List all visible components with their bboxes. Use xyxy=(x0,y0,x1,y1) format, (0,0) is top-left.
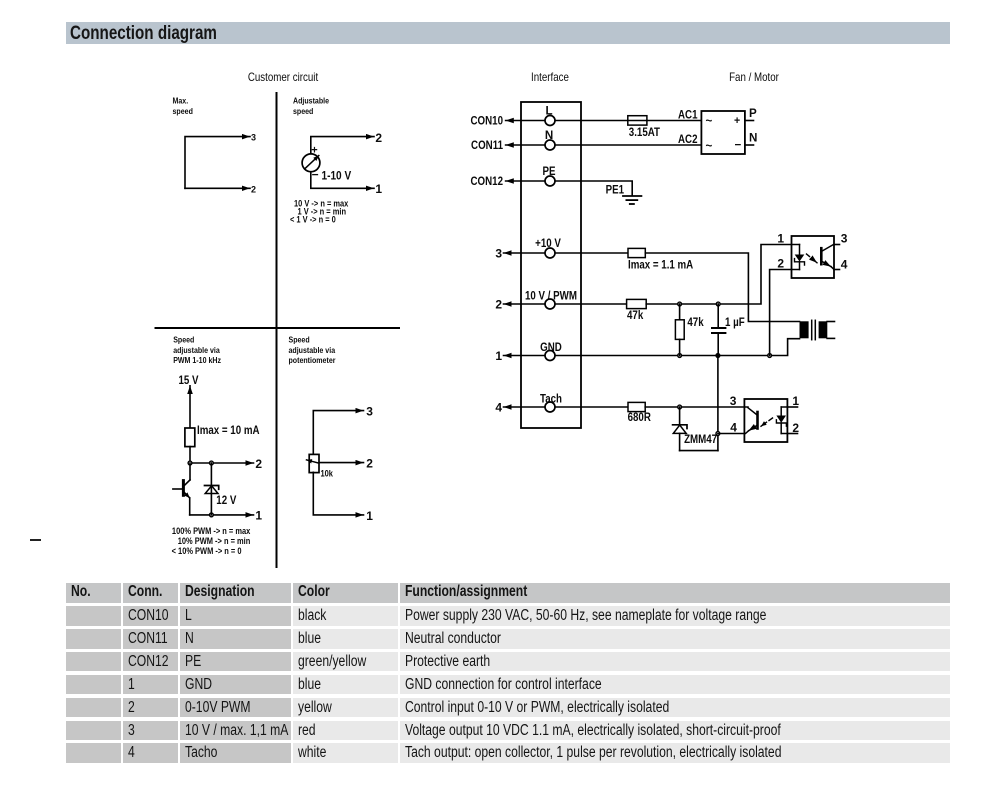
left margin dash xyxy=(30,539,41,541)
resistor R 47k vertical xyxy=(675,304,684,356)
wire U2 pin1 stub xyxy=(787,406,797,408)
ground symbol xyxy=(623,196,641,204)
rectifier block fan box xyxy=(701,111,745,154)
svg-text:47k: 47k xyxy=(687,316,703,329)
wire U2 pin2 stub xyxy=(787,433,797,435)
wire max-speed to 3 xyxy=(185,137,250,189)
svg-text:P: P xyxy=(749,107,757,120)
svg-text:10% PWM -> n = min: 10% PWM -> n = min xyxy=(178,537,251,547)
zener diode ZMM47 xyxy=(673,407,687,451)
svg-text:1: 1 xyxy=(375,182,382,196)
svg-text:2: 2 xyxy=(366,457,373,471)
svg-text:~: ~ xyxy=(706,115,713,128)
wire U1 pin2 to GND xyxy=(770,270,792,356)
wire PWM to resistor xyxy=(555,303,626,305)
wire adj-speed to 1 xyxy=(311,172,374,189)
wire GND drop to rail xyxy=(717,356,719,451)
divider wire vertical xyxy=(276,93,278,567)
potentiometer R 10k xyxy=(307,454,320,472)
svg-text:−: − xyxy=(312,168,319,182)
wire resistor to node xyxy=(189,447,191,463)
svg-text:1-10 V: 1-10 V xyxy=(322,170,352,183)
svg-text:1: 1 xyxy=(777,231,784,245)
wire Tach to resistor xyxy=(555,406,628,408)
svg-text:1: 1 xyxy=(255,509,262,523)
label Speed adjustable via PWM 1-10 kHz xyxy=(173,335,221,365)
junction xyxy=(768,354,772,358)
svg-text:3: 3 xyxy=(730,394,737,408)
junction xyxy=(678,405,682,409)
svg-text:Imax = 1.1 mA: Imax = 1.1 mA xyxy=(628,259,693,272)
svg-text:Customer circuit: Customer circuit xyxy=(248,71,318,84)
svg-text:1 µF: 1 µF xyxy=(725,316,745,329)
wire zener bottom rail xyxy=(680,450,718,452)
svg-text:1: 1 xyxy=(366,509,373,523)
wire pot top to 3 xyxy=(313,411,363,455)
wire +10V to resistor xyxy=(555,252,628,254)
wire GND rail xyxy=(555,339,799,356)
wire PE to ground xyxy=(555,181,632,195)
svg-text:CON12: CON12 xyxy=(471,175,504,188)
svg-text:ZMM47: ZMM47 xyxy=(684,433,717,446)
wire 680R to U2 pin3 xyxy=(645,406,744,408)
svg-text:Adjustable: Adjustable xyxy=(293,96,330,106)
interface box xyxy=(521,102,581,428)
svg-text:CON10: CON10 xyxy=(471,115,504,128)
wire CON12 arrow xyxy=(506,180,545,182)
wire terminal-1 arrow xyxy=(504,355,545,357)
svg-text:CON11: CON11 xyxy=(471,139,503,152)
junction node xyxy=(210,461,214,465)
svg-text:2: 2 xyxy=(777,256,784,270)
svg-text:Speed: Speed xyxy=(173,335,194,345)
wire P stub xyxy=(745,120,754,122)
svg-text:potentiometer: potentiometer xyxy=(289,356,336,366)
svg-text:speed: speed xyxy=(173,106,194,116)
junction xyxy=(715,353,720,358)
junction xyxy=(678,302,682,306)
svg-text:10k: 10k xyxy=(320,469,333,479)
wire 15V arrow up xyxy=(189,386,191,428)
zener diode D1 12 V xyxy=(205,463,219,515)
wire terminal-3 arrow xyxy=(504,252,545,254)
svg-text:Fan / Motor: Fan / Motor xyxy=(729,71,779,84)
wire max-speed to 2 xyxy=(185,187,250,189)
svg-text:2: 2 xyxy=(375,131,382,145)
svg-text:< 10% PWM -> n = 0: < 10% PWM -> n = 0 xyxy=(172,547,242,557)
junction xyxy=(716,302,720,306)
svg-text:4: 4 xyxy=(730,421,737,435)
capacitor C1 1 uF xyxy=(712,304,725,356)
junction node xyxy=(188,461,192,465)
svg-text:Imax = 10 mA: Imax = 10 mA xyxy=(197,424,260,437)
svg-text:3: 3 xyxy=(251,133,256,143)
transistor Q1 xyxy=(173,463,190,515)
svg-text:47k: 47k xyxy=(627,309,643,322)
divider wire horizontal xyxy=(156,327,400,329)
wire N stub xyxy=(745,144,754,146)
svg-text:680R: 680R xyxy=(628,411,652,424)
svg-text:PE1: PE1 xyxy=(606,184,624,197)
wire CON11 arrow xyxy=(506,144,545,146)
svg-text:~: ~ xyxy=(706,140,713,153)
wire pot bottom to 1 xyxy=(313,472,363,515)
svg-text:adjustable via: adjustable via xyxy=(289,345,336,355)
title bar xyxy=(66,22,950,44)
wire 47k to U1 pin1 xyxy=(646,245,791,305)
wire adj-speed to 2 xyxy=(311,137,374,154)
voltage source V1 1-10 V xyxy=(302,144,320,181)
resistor R Imax = 1.1 mA xyxy=(628,248,645,257)
optocoupler U1 xyxy=(792,236,835,278)
resistor R Imax = 10 mA xyxy=(185,428,195,447)
wire terminal-4 arrow xyxy=(504,406,545,408)
svg-text:2: 2 xyxy=(792,421,799,435)
svg-text:4: 4 xyxy=(841,257,848,271)
svg-text:3: 3 xyxy=(366,404,373,418)
resistor R 47k xyxy=(627,299,647,308)
fuse F1 3.15AT xyxy=(628,116,647,125)
svg-text:4: 4 xyxy=(495,400,502,414)
svg-text:+: + xyxy=(734,115,740,127)
svg-text:Interface: Interface xyxy=(531,71,569,84)
svg-text:100% PWM -> n = max: 100% PWM -> n = max xyxy=(172,527,251,537)
resistor R 680R xyxy=(628,402,645,411)
label Speed adjustable via potentiometer xyxy=(289,335,336,365)
optocoupler U2 xyxy=(744,399,787,442)
svg-text:12 V: 12 V xyxy=(216,494,237,507)
svg-text:Speed: Speed xyxy=(289,335,310,345)
wire N to AC2 xyxy=(555,144,701,146)
svg-text:3: 3 xyxy=(495,246,502,260)
svg-text:15 V: 15 V xyxy=(179,374,200,387)
wire node to 2 xyxy=(190,462,254,464)
svg-text:1: 1 xyxy=(792,394,799,408)
svg-text:PWM 1-10 kHz: PWM 1-10 kHz xyxy=(173,356,221,366)
svg-text:3.15AT: 3.15AT xyxy=(629,126,661,139)
wire emitter to 1 xyxy=(190,514,254,516)
svg-text:2: 2 xyxy=(251,184,256,194)
svg-text:−: − xyxy=(735,139,742,152)
svg-text:2: 2 xyxy=(255,457,262,471)
svg-text:3: 3 xyxy=(841,231,848,245)
wire U1 pin4 stub xyxy=(834,269,840,271)
wire U2 pin4 xyxy=(718,433,745,435)
svg-text:adjustable via: adjustable via xyxy=(173,345,220,355)
wire pot wiper to 2 xyxy=(319,462,363,464)
svg-text:2: 2 xyxy=(495,297,502,311)
wire L to fuse xyxy=(555,120,628,122)
svg-text:N: N xyxy=(749,132,757,145)
svg-text:+: + xyxy=(311,144,317,156)
junction node xyxy=(210,513,214,517)
wire +10V to motor connector xyxy=(645,253,799,322)
motor plug connector xyxy=(800,320,835,339)
wire CON10 arrow xyxy=(506,120,545,122)
wire fuse to AC1 xyxy=(647,120,702,122)
svg-text:< 1 V -> n = 0: < 1 V -> n = 0 xyxy=(290,215,336,225)
svg-text:AC1: AC1 xyxy=(678,109,698,122)
junction xyxy=(678,354,682,358)
junction xyxy=(716,432,720,436)
svg-text:Max.: Max. xyxy=(173,96,189,106)
svg-text:1: 1 xyxy=(495,349,502,363)
wire terminal-2 arrow xyxy=(504,303,545,305)
svg-text:speed: speed xyxy=(293,106,314,116)
svg-text:AC2: AC2 xyxy=(678,133,698,146)
wire U1 pin3 stub xyxy=(834,244,840,246)
